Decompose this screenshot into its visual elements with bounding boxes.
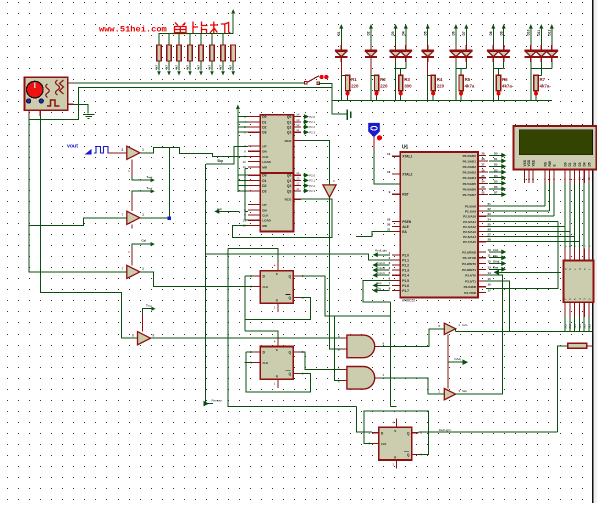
svg-text:Q1: Q1	[287, 179, 292, 183]
svg-text:D12: D12	[547, 29, 551, 35]
svg-text:CLK: CLK	[381, 442, 387, 446]
wire to U5a S	[228, 249, 278, 262]
svg-text:17: 17	[488, 289, 492, 293]
wire LCD data 5	[588, 183, 590, 248]
svg-text:P3.1/TXD: P3.1/TXD	[463, 256, 477, 260]
wire LCD ctrl 2	[553, 183, 555, 216]
svg-text:P1.1: P1.1	[402, 258, 409, 262]
resistor pack RP1 top bus wire	[159, 14, 233, 45]
svg-text:R2: R2	[380, 77, 386, 82]
svg-text:RCO: RCO	[285, 139, 292, 143]
svg-text:35: 35	[482, 174, 485, 178]
svg-text:D9: D9	[499, 31, 503, 35]
D flip-flop U9	[379, 427, 412, 460]
wire U9 Qbar feedback to CLK	[364, 411, 429, 455]
buffer U6a pointing down	[323, 185, 336, 197]
svg-text:CAL: CAL	[493, 248, 499, 252]
svg-text:13: 13	[296, 118, 300, 122]
svg-text:P2.5/A13: P2.5/A13	[463, 230, 476, 234]
watermark chinese 单片机 (drawn strokes)	[172, 22, 231, 34]
svg-text:D3: D3	[391, 31, 395, 35]
svg-text:21: 21	[488, 202, 492, 206]
svg-text:D0: D0	[262, 115, 266, 119]
wire P1.5 down to logic	[363, 280, 392, 302]
svg-text:D7: D7	[462, 31, 466, 35]
indicator leds	[27, 99, 31, 103]
svg-text:Q3: Q3	[287, 189, 292, 193]
resistor RP1-7	[222, 34, 224, 45]
svg-text:12: 12	[296, 182, 300, 186]
pulse source symbol	[86, 147, 110, 155]
svg-text:Cal: Cal	[141, 239, 146, 243]
buffer U8a	[444, 323, 455, 334]
wire U2c out to U5 clk	[140, 272, 254, 286]
wire U8a out to right	[456, 330, 593, 332]
power arrow above resistor pack	[231, 9, 235, 14]
counter chip U4	[260, 173, 293, 231]
U10 top pin 2	[574, 249, 576, 261]
svg-text:D4: D4	[583, 162, 587, 166]
wire vcc vertical to chips	[237, 110, 239, 192]
svg-text:P2.2: P2.2	[309, 125, 315, 129]
counter chip U3	[260, 115, 293, 173]
svg-text:4k7: 4k7	[219, 65, 223, 70]
svg-text:3: 3	[142, 213, 144, 217]
wire Remote to P1.1	[206, 254, 392, 260]
svg-text:3: 3	[142, 267, 144, 271]
svg-text:37: 37	[482, 163, 485, 167]
wire junction vertical	[168, 147, 170, 218]
LED D12	[551, 28, 553, 45]
svg-text:P2.3/A11: P2.3/A11	[463, 220, 476, 224]
svg-text:D4: D4	[401, 31, 405, 35]
svg-text:XTAL2: XTAL2	[402, 172, 412, 176]
LED D5	[427, 28, 429, 45]
wire P2.6 to LCD	[486, 236, 575, 238]
wire long vertical to U9 area	[389, 302, 391, 407]
svg-text:8: 8	[122, 148, 124, 152]
svg-text:RCO: RCO	[285, 198, 292, 202]
svg-text:P2.1/A9: P2.1/A9	[465, 210, 476, 214]
wire P2.1 to LCD	[486, 210, 549, 212]
svg-text:Q2: Q2	[287, 184, 292, 188]
svg-text:Skp: Skp	[493, 254, 498, 258]
wire between buffers	[447, 334, 449, 388]
buffer U8b	[444, 389, 455, 400]
svg-text:P3.6/WR: P3.6/WR	[464, 285, 477, 289]
svg-text:P2.2/A10: P2.2/A10	[463, 215, 476, 219]
svg-text:28: 28	[488, 238, 492, 242]
wire crystal to MCU xtal2	[374, 148, 400, 184]
svg-text:D1: D1	[568, 162, 572, 166]
wire R20 to edge	[587, 345, 593, 347]
svg-text:Q: Q	[288, 350, 291, 354]
U10 top pin 5	[588, 249, 590, 261]
svg-text:4k7: 4k7	[155, 65, 159, 70]
svg-text:13: 13	[488, 265, 492, 269]
wire U9 Q RedLight to right	[418, 431, 557, 433]
fg bottom legs	[28, 110, 30, 116]
wire fg leg down to buffer U2c	[29, 116, 131, 272]
svg-text:22: 22	[488, 207, 492, 211]
svg-text:TminB: TminB	[376, 266, 385, 270]
fg right pins	[68, 82, 74, 84]
svg-text:MR: MR	[262, 224, 267, 228]
svg-text:10: 10	[242, 218, 246, 222]
resistor R15	[496, 75, 500, 90]
svg-text:D5: D5	[587, 162, 591, 166]
svg-text:D2: D2	[262, 184, 266, 188]
U2b lower stub	[131, 224, 133, 228]
svg-text:10: 10	[242, 160, 246, 164]
svg-text:P3.0/RXD: P3.0/RXD	[462, 250, 477, 254]
svg-text:300: 300	[404, 84, 412, 89]
svg-text:P2.0/A8: P2.0/A8	[465, 205, 476, 209]
stub chip1 WR	[245, 167, 248, 169]
chip U10	[564, 261, 594, 303]
svg-text:13: 13	[296, 176, 300, 180]
wire long vertical left of U5a	[228, 249, 356, 407]
wire up to resistor R20	[557, 346, 567, 432]
svg-text:XTAL1: XTAL1	[402, 155, 412, 159]
svg-text:14: 14	[296, 113, 300, 117]
U10 top pin 3	[578, 249, 580, 261]
U10 bottom pin 2	[574, 302, 576, 317]
wire down to P3.6	[486, 221, 558, 288]
wire U5a Q out	[300, 276, 391, 316]
U2c enable pin + net label Cal	[131, 249, 133, 266]
stub	[244, 210, 248, 212]
wire U5b Q to gate U7b	[300, 352, 341, 370]
svg-text:Skp: Skp	[217, 159, 223, 163]
function generator box	[25, 77, 68, 110]
LED D6	[455, 28, 457, 45]
U2b enable pin + net label Tsub	[131, 196, 133, 212]
svg-text:P0.7/AD7: P0.7/AD7	[463, 193, 477, 197]
wire fg leg2 to buffer U2d	[40, 116, 137, 338]
svg-text:www.51hei.com: www.51hei.com	[99, 25, 167, 35]
svg-text:DAdj: DAdj	[493, 260, 500, 264]
wire LCD data 1	[569, 183, 571, 248]
svg-text:38: 38	[482, 157, 485, 161]
svg-text:E: E	[552, 164, 556, 166]
svg-text:34: 34	[482, 180, 485, 184]
svg-text:P2.4/A12: P2.4/A12	[463, 225, 476, 229]
svg-text:P2.3: P2.3	[309, 130, 315, 134]
svg-text:D1: D1	[494, 157, 498, 161]
svg-text:CLK: CLK	[263, 285, 269, 289]
wire U7b out to buffer U8b	[381, 378, 445, 394]
svg-text:D1: D1	[262, 179, 266, 183]
svg-text:P1.2: P1.2	[402, 264, 409, 268]
svg-text:ALE: ALE	[402, 225, 409, 229]
svg-text:11: 11	[296, 187, 299, 191]
svg-text:R1: R1	[351, 77, 357, 82]
wire Remote vertical	[205, 164, 207, 404]
svg-text:D5: D5	[423, 31, 427, 35]
LED D7	[465, 28, 467, 45]
LED D1	[340, 28, 342, 45]
svg-text:DN: DN	[262, 150, 266, 154]
svg-text:11: 11	[488, 254, 491, 258]
svg-text:26: 26	[488, 228, 492, 232]
svg-text:CAL: CAL	[462, 323, 468, 327]
svg-text:P3.2/INT0: P3.2/INT0	[462, 262, 476, 266]
svg-text:DAdj: DAdj	[454, 357, 461, 361]
svg-text:4k7: 4k7	[229, 65, 233, 70]
svg-text:P2.0: P2.0	[309, 115, 315, 119]
svg-text:CLK: CLK	[262, 214, 269, 218]
svg-text:4k7a-: 4k7a-	[502, 84, 514, 89]
LED D8	[492, 28, 494, 45]
wire U4 RCO loop	[232, 199, 331, 237]
svg-text:P3.4/T0: P3.4/T0	[465, 274, 476, 278]
wire U5b CLK stub	[245, 361, 254, 363]
svg-text:P2.7/A15: P2.7/A15	[463, 240, 476, 244]
buffer U2c	[127, 265, 140, 278]
U10 bottom pin 5	[588, 302, 590, 317]
waveform glyphs	[46, 80, 64, 106]
buffer U2a	[127, 146, 140, 159]
svg-text:EA: EA	[402, 230, 407, 234]
svg-text:P1.0: P1.0	[402, 253, 409, 257]
svg-text:Q: Q	[288, 275, 291, 279]
wire P2.3 to LCD	[486, 220, 558, 222]
svg-text:P2.1: P2.1	[309, 179, 315, 183]
wire LCD ctrl 0	[544, 183, 546, 206]
wire U5a D stub	[245, 275, 254, 277]
svg-text:AT89C52: AT89C52	[402, 299, 415, 303]
svg-text:D0: D0	[262, 174, 266, 178]
wire U5a Qbar feedback to D	[245, 276, 310, 319]
svg-text:LOAD: LOAD	[262, 160, 271, 164]
svg-text:RST: RST	[402, 193, 409, 197]
svg-text:P0.4/AD4: P0.4/AD4	[463, 176, 477, 180]
svg-text:4k7: 4k7	[186, 65, 190, 70]
svg-text:P1.7: P1.7	[402, 289, 409, 293]
svg-text:7: 7	[122, 267, 124, 271]
wire to U9 D	[357, 407, 373, 432]
svg-text:39: 39	[482, 152, 485, 156]
svg-text:D2: D2	[262, 126, 266, 130]
LED D11	[540, 28, 542, 45]
svg-text:Q: Q	[407, 431, 410, 435]
resistor RP1-6	[211, 34, 213, 45]
svg-text:P0.0/AD0: P0.0/AD0	[463, 154, 477, 158]
LED bus	[332, 99, 552, 101]
wire U8b out up to P3.4	[456, 275, 503, 394]
wire P2.2 to LCD	[486, 215, 554, 217]
svg-text:7: 7	[122, 213, 124, 217]
svg-text:D11: D11	[537, 30, 541, 36]
wire P2.4 to LCD	[486, 225, 565, 227]
wire U5b D stub	[246, 351, 254, 353]
svg-text:RedLight: RedLight	[439, 428, 451, 432]
svg-text:P0.2/AD2: P0.2/AD2	[463, 165, 477, 169]
resistor R16	[534, 75, 538, 90]
wire crystal down (pin)	[373, 137, 375, 148]
wire P2.0 to LCD	[486, 205, 545, 207]
wire U2a out to U3	[140, 147, 248, 156]
svg-text:8: 8	[153, 334, 155, 338]
svg-text:D6: D6	[452, 31, 456, 35]
svg-text:23: 23	[488, 212, 492, 216]
svg-text:29: 29	[387, 217, 391, 221]
svg-text:Rmt: Rmt	[493, 266, 498, 270]
resistor RP1-3	[178, 34, 180, 45]
LCD LM016L frame	[514, 126, 597, 169]
resistor R11	[375, 75, 379, 90]
svg-text:D3: D3	[262, 189, 266, 193]
resistor R10	[346, 75, 350, 90]
wire to U5b S	[245, 331, 278, 338]
svg-text:P3.5/T1: P3.5/T1	[465, 279, 476, 283]
svg-text:Q: Q	[288, 296, 291, 300]
U10 top pin 1	[569, 249, 571, 261]
svg-text:DN: DN	[262, 208, 266, 212]
wire to gate U7b-B	[335, 316, 342, 380]
svg-text:CLK: CLK	[262, 155, 269, 159]
wire chip1 UP row	[206, 146, 248, 164]
wire junction	[244, 319, 246, 331]
svg-text:33: 33	[482, 185, 485, 189]
stub chip2 LOAD	[245, 219, 248, 221]
svg-text:12: 12	[488, 260, 492, 264]
svg-text:4k7: 4k7	[197, 65, 201, 70]
svg-text:Skp: Skp	[462, 389, 468, 393]
AND gate U7b	[347, 367, 375, 390]
svg-text:D7: D7	[494, 191, 498, 195]
wire U7a out to buffer U8a	[381, 329, 445, 347]
svg-text:8: 8	[132, 334, 134, 338]
svg-text:D3: D3	[494, 168, 498, 172]
svg-text:P3.7/RD: P3.7/RD	[464, 291, 476, 295]
svg-text:25: 25	[488, 222, 492, 226]
svg-text:UP: UP	[262, 203, 266, 207]
wire U2d out to AND gate U7a	[151, 337, 342, 339]
svg-text:P0.5/AD5: P0.5/AD5	[463, 182, 477, 186]
svg-text:S: S	[394, 429, 396, 433]
LED D10	[530, 28, 532, 45]
svg-text:15: 15	[488, 277, 492, 281]
wire U6a out to gate U7a-B	[330, 197, 342, 349]
svg-text:220: 220	[380, 84, 388, 89]
svg-text:S: S	[276, 348, 278, 352]
wire to U9 S stub x	[390, 406, 396, 408]
resistor RP1-2	[168, 34, 170, 45]
svg-text:16: 16	[488, 283, 492, 287]
svg-text:LOAD: LOAD	[262, 219, 271, 223]
wire P2.5 to LCD	[486, 231, 570, 233]
svg-text:R6: R6	[502, 77, 508, 82]
svg-text:TminC: TminC	[376, 271, 386, 275]
svg-text:220: 220	[437, 84, 445, 89]
D flip-flop U5b	[260, 347, 293, 380]
power arrow above U3	[236, 105, 240, 110]
knob	[27, 81, 44, 98]
svg-text:18: 18	[387, 170, 391, 174]
svg-text:P1.5: P1.5	[402, 279, 409, 283]
switch SW1	[305, 76, 320, 85]
svg-text:P2.0: P2.0	[309, 173, 315, 177]
crystal blue tag	[368, 123, 380, 137]
svg-text:D10: D10	[526, 29, 530, 35]
wire switch to cap	[318, 83, 346, 114]
svg-text:19: 19	[387, 152, 391, 156]
wire LCD data 2	[574, 183, 576, 248]
wire U5b Qbar feedback	[246, 352, 310, 392]
svg-text:P0.1/AD1: P0.1/AD1	[463, 159, 477, 163]
svg-text:P2.1: P2.1	[309, 120, 315, 124]
svg-text:P0.6/AD6: P0.6/AD6	[463, 187, 477, 191]
svg-text:D6: D6	[494, 185, 498, 189]
svg-text:S: S	[276, 272, 278, 276]
svg-text:4k7a-: 4k7a-	[540, 84, 552, 89]
svg-text:TminA: TminA	[376, 261, 385, 265]
svg-text:D5: D5	[494, 180, 498, 184]
svg-text:RS: RS	[543, 162, 547, 166]
LED D2	[370, 28, 372, 45]
svg-text:32: 32	[482, 191, 485, 195]
svg-text:P1.3: P1.3	[402, 269, 409, 273]
LED D9	[503, 28, 505, 45]
resistor RP1-8	[231, 45, 236, 61]
svg-text:24: 24	[488, 217, 492, 221]
svg-text:D0: D0	[563, 162, 567, 166]
svg-text:Q1: Q1	[287, 120, 292, 124]
svg-text:3: 3	[142, 148, 144, 152]
U10 left pin	[497, 271, 561, 273]
svg-text:D4: D4	[494, 174, 498, 178]
svg-text:11: 11	[296, 128, 299, 132]
U2a enable pin + net label Tadd	[131, 159, 133, 175]
svg-text:P2.2: P2.2	[309, 184, 315, 188]
wire LCD ctrl 1	[548, 183, 550, 211]
resistor RP1-5	[200, 34, 202, 45]
U2d enable pin + net label Tneg	[142, 313, 144, 331]
svg-text:27: 27	[488, 233, 492, 237]
LCD screen	[519, 130, 592, 155]
AND gate U7a	[347, 335, 375, 358]
svg-text:31: 31	[387, 228, 391, 232]
svg-text:D0: D0	[494, 152, 498, 156]
svg-text:D3: D3	[578, 162, 582, 166]
svg-text:Q: Q	[288, 372, 291, 376]
U10 top pin 4	[583, 249, 585, 261]
wire EA	[356, 232, 392, 237]
svg-text:4k7: 4k7	[208, 65, 212, 70]
svg-text:P2.6/A14: P2.6/A14	[463, 235, 476, 239]
LED D3	[395, 28, 397, 45]
svg-text:10: 10	[488, 248, 492, 252]
buffer U2d	[138, 332, 151, 345]
svg-text:PSEN: PSEN	[402, 220, 412, 224]
wire branch to buffer U2b	[29, 218, 127, 226]
svg-text:R7: R7	[540, 77, 546, 82]
resistor R12	[399, 75, 403, 90]
svg-text:D8: D8	[489, 31, 493, 35]
svg-text:Q0: Q0	[287, 174, 292, 178]
wire fg out to switch	[73, 82, 306, 84]
U10 bottom pin 3	[578, 302, 580, 317]
wire LCD data 0	[564, 183, 566, 248]
svg-text:RedLight: RedLight	[375, 248, 387, 252]
svg-text:D2: D2	[367, 31, 371, 35]
wire chip cascade vertical	[244, 168, 246, 220]
svg-text:RW: RW	[548, 161, 552, 166]
svg-text:P0.3/AD3: P0.3/AD3	[463, 171, 477, 175]
svg-text:P2.3: P2.3	[309, 189, 315, 193]
